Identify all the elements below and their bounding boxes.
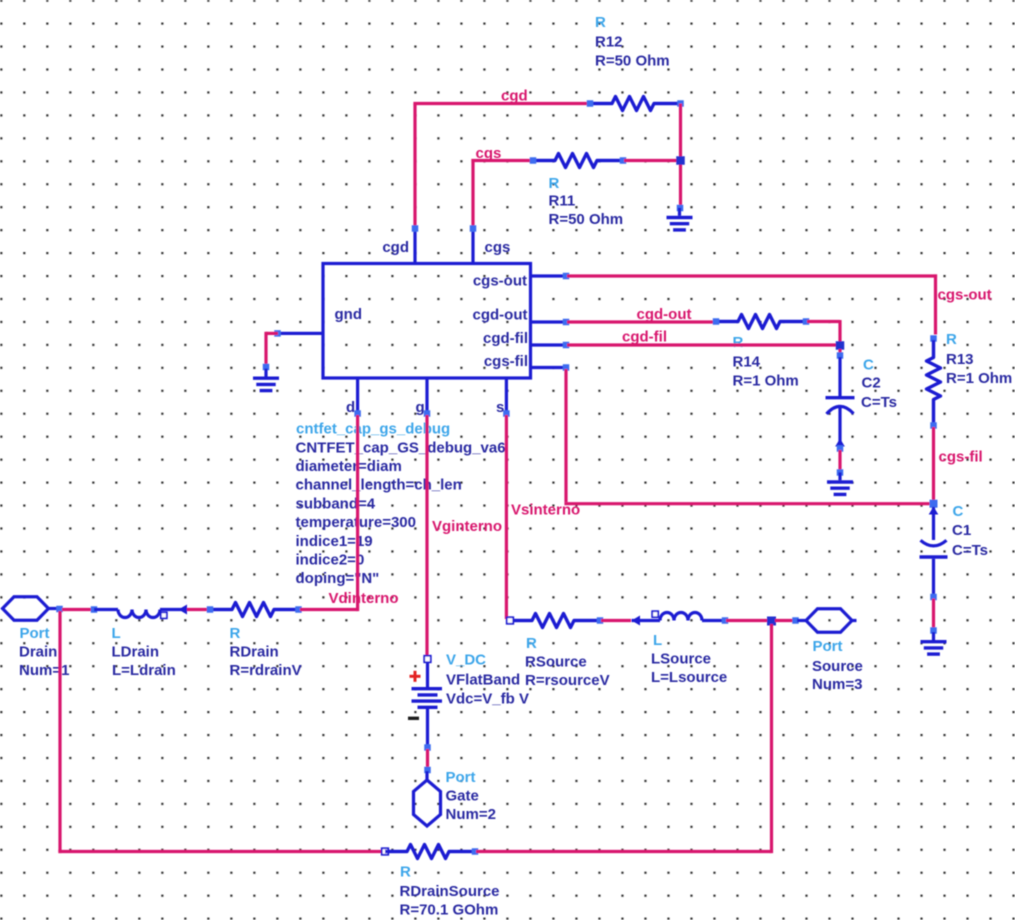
pin s (block bottom) [503,378,510,417]
label RDrainSource type [400,864,411,881]
svg-text:LDrain: LDrain [112,644,160,661]
pin cgs (block top) [470,225,477,263]
svg-text:cgd: cgd [382,239,409,256]
pin cgd (block top) [412,225,419,263]
ground G3 (C2) [827,472,853,494]
label R11 value [549,211,624,228]
svg-text:Vsinterno: Vsinterno [511,502,580,519]
pin 2 of LSource [722,617,729,624]
svg-text:Port: Port [813,638,843,655]
inductor LDrain [94,610,186,618]
label net cgd (top wire) [501,88,528,105]
arrow of C2 [835,439,845,447]
wire R11 to junction [624,159,681,162]
pin marker of LSource [652,611,658,617]
pin of port P1 / node junction [56,606,63,613]
pin 2 of R12 [677,100,684,107]
svg-text:Num=3: Num=3 [812,676,862,693]
arrow of LDrain [179,605,188,615]
arrow of C1 [929,507,939,515]
svg-text:cgs-out: cgs-out [473,273,527,290]
wire net cgd-fil [567,343,836,346]
plus sign of V_DC [410,671,421,682]
svg-text:L: L [653,632,662,649]
pin of port P2 [424,767,431,774]
svg-text:diameter=diam: diameter=diam [296,458,402,475]
capacitor C1 [920,507,948,596]
label net cgd-out [637,306,692,323]
label P2 num [446,806,496,823]
label net cgd-fil [622,329,667,346]
pin cgs-out (block right) [531,273,570,280]
pin 1 of R12 [587,100,594,107]
svg-text:RSource: RSource [525,654,587,671]
label pin cgd [382,239,409,256]
label RSource name [525,654,587,671]
label C2 name [862,375,881,392]
label C1 type [953,503,964,520]
label X1 param temperature [296,514,416,531]
svg-text:d: d [346,399,355,416]
wire net cgs: corner to R11 [471,159,531,227]
label pin cgs-fil [484,353,528,370]
svg-text:R13: R13 [946,351,974,368]
svg-text:C=Ts: C=Ts [952,542,988,559]
inductor LSource [632,613,725,621]
svg-text:cgs: cgs [485,239,511,256]
svg-text:channel_length=ch_len: channel_length=ch_len [296,477,462,494]
svg-text:g: g [416,399,425,416]
wire RSource to LSource [601,619,631,622]
label C2 value [861,394,897,411]
svg-text:Source: Source [812,658,863,675]
label RDrain value [230,662,302,679]
label pin cgd-out [473,307,528,324]
label RDrainSource value [400,902,499,919]
wire bottom rail left [58,611,384,853]
svg-text:R: R [946,331,957,348]
wire junction to port Source [775,619,794,622]
svg-text:C: C [953,503,964,520]
wire bottom rail right [476,624,772,853]
pin 2 of C1 [930,594,937,601]
svg-text:Gate: Gate [446,788,479,805]
label net Vsinterno [511,502,580,519]
label pin cgd-fil [483,330,528,347]
label pin cgs-out [473,273,527,290]
wire C1 to ground [932,599,935,630]
ground G4 (C1) [921,632,947,654]
wire gnd net [266,332,278,366]
svg-text:R=50 Ohm: R=50 Ohm [595,53,670,70]
capacitor C2 [826,357,855,446]
pin of ground G1 [677,205,684,212]
svg-text:cgs-fil: cgs-fil [484,353,528,370]
label net Vdinterno [329,590,399,607]
label net cgs-out [938,287,992,304]
label C1 name [952,522,971,539]
ground G1 (R11/R12) [667,208,693,230]
pin 2 of R11 [620,157,627,164]
pin of ground G4 [930,627,937,634]
pin 1 of RSource [507,617,514,624]
minus sign of V_DC [408,717,419,720]
svg-text:indice2=0: indice2=0 [296,552,365,569]
junction cgd-out/cgd-fil node [836,341,845,350]
label R13 name [946,351,974,368]
wire net Vdinterno [300,415,358,611]
svg-text:R11: R11 [549,193,576,210]
pin 2 of C2 [837,445,844,452]
pin g (block bottom) [424,378,431,417]
wire R12 right down to ground [679,104,682,206]
pin 1 of R14 [713,318,720,325]
svg-text:Num=1: Num=1 [19,662,69,679]
svg-text:cgd: cgd [501,88,528,105]
label V_DC value [446,691,529,708]
label X1 param doping [296,570,380,587]
svg-text:cgd-out: cgd-out [637,306,692,323]
label LSource name [651,651,711,668]
label R12 value [595,53,670,70]
label RDrain type [230,625,241,642]
svg-text:gnd: gnd [335,306,363,323]
resistor RSource [510,614,600,628]
svg-text:R: R [595,14,606,31]
svg-text:cgd-fil: cgd-fil [483,330,528,347]
svg-text:V_DC: V_DC [446,652,486,669]
svg-text:Vdc=V_fb V: Vdc=V_fb V [446,691,529,708]
wire net Vginterno [425,415,428,658]
pin of ground G3 [837,469,844,476]
resistor R11 [533,154,623,168]
label R13 type [946,331,957,348]
svg-text:VFlatBand: VFlatBand [446,672,520,689]
label V_DC type [446,652,486,669]
svg-text:cgd-fil: cgd-fil [622,329,667,346]
svg-text:cgs-out: cgs-out [938,287,992,304]
junction node C1 top [930,500,938,508]
label V_DC name [446,672,520,689]
svg-text:C: C [863,357,874,374]
label X1 param subband [296,495,376,512]
pin 2 of R13 [930,422,937,429]
svg-text:cgs: cgs [476,145,502,162]
wire R13 to node Vsinterno [932,427,935,502]
label X1 param diameter [296,458,402,475]
pin 1 of R11 [530,157,537,164]
wire net Vsinterno s-pin [506,415,509,621]
label LDrain type [112,625,121,642]
pin d (block bottom) [354,378,361,417]
wire net cgs-out [567,274,937,334]
svg-text:subband=4: subband=4 [296,495,376,512]
label X1 name [296,439,506,456]
pin 1 of C2 [837,352,844,359]
label net cgs-fil right [939,449,983,466]
svg-text:RDrainSource: RDrainSource [400,883,500,900]
port P1 Drain [3,597,58,621]
pin cgd-out (block right) [531,319,570,326]
svg-text:CNTFET_cap_GS_debug_va6: CNTFET_cap_GS_debug_va6 [296,439,506,456]
svg-text:Num=2: Num=2 [446,806,496,823]
svg-text:C=Ts: C=Ts [861,394,897,411]
svg-text:R=rsourceV: R=rsourceV [525,672,610,689]
label R13 value [946,370,1012,387]
ground G2 (block gnd) [253,369,279,391]
label X1 param indice2 [296,552,365,569]
wire net cgd-out left [567,320,715,323]
label X1 type [296,421,450,438]
label R14 type [733,334,744,351]
resistor R12 [590,97,680,111]
wire LSource to junction [726,619,772,622]
label net cgs (top wire) [476,145,502,162]
label R11 name [549,193,576,210]
pin 1 of LDrain [91,606,98,613]
label RDrainSource name [400,883,500,900]
svg-text:cgs-fil: cgs-fil [939,449,983,466]
resistor R13 [927,340,941,427]
pin 1 of SRC1 V_DC [424,656,431,663]
svg-text:Port: Port [446,769,476,786]
label pin g [416,399,425,416]
svg-text:doping="N": doping="N" [296,570,380,587]
label RSource value [525,672,610,689]
label P1 type [20,625,50,642]
pin cgs-fil (block right) [531,364,570,371]
svg-text:R: R [526,635,537,652]
svg-text:L: L [112,625,121,642]
wire net cgd-out right corner [807,320,840,342]
pin 2 of RDrain [295,606,302,613]
svg-text:RDrain: RDrain [230,644,279,661]
pin 1 of RDrain [207,606,214,613]
svg-text:Drain: Drain [19,644,57,661]
label P3 num [812,676,862,693]
svg-text:R: R [733,334,744,351]
label X1 param channel_length [296,477,462,494]
svg-text:indice1=19: indice1=19 [296,533,373,550]
wire junction to C2 [838,349,841,354]
pin 1 of RDrainSource [382,848,389,855]
label R14 name [733,354,761,371]
label pin cgs [485,239,511,256]
label pin s [496,399,504,416]
label P3 name [812,658,863,675]
svg-text:C2: C2 [862,375,881,392]
svg-text:C1: C1 [952,522,971,539]
pin 2 of RSource [597,617,604,624]
wire net cgs-fil [564,369,933,504]
svg-text:Vdinterno: Vdinterno [329,590,399,607]
svg-text:L=Lsource: L=Lsource [651,669,727,686]
svg-text:R12: R12 [595,34,623,51]
label R12 name [595,34,623,51]
label P2 name [446,788,479,805]
svg-text:R: R [549,175,560,192]
label C1 value [952,542,988,559]
svg-text:R=1 Ohm: R=1 Ohm [733,373,799,390]
svg-text:L=Ldrain: L=Ldrain [112,662,176,679]
svg-text:temperature=300: temperature=300 [296,514,416,531]
pin cgd-fil (block right) [531,342,570,349]
label pin gnd [335,306,363,323]
label R12 type [595,14,606,31]
svg-text:R14: R14 [733,354,761,371]
arrow of LSource [632,616,641,626]
label net Vginterno [432,518,502,535]
label LSource type [653,632,662,649]
label LSource value [651,669,727,686]
pin of port P3 [792,617,799,624]
svg-text:Port: Port [20,625,50,642]
pin 2 of V_DC [424,744,431,751]
pin 2 of RDrainSource [472,848,479,855]
wire net cgd top: corner to R12 [413,104,588,228]
pin gnd (block left) [274,330,323,337]
wire LDrain to RDrain [187,608,209,611]
svg-text:Vginterno: Vginterno [432,518,502,535]
svg-text:LSource: LSource [651,651,711,668]
label P2 type [446,769,476,786]
wire P1 to LDrain [62,608,93,611]
label R11 type [549,175,560,192]
label P3 type [813,638,843,655]
label C2 type [863,357,874,374]
junction source node [767,617,776,626]
source SRC1 V_DC battery [412,662,443,746]
svg-text:R=50 Ohm: R=50 Ohm [549,211,624,228]
pin 1 of R13 [930,335,937,342]
label P1 num [19,662,69,679]
svg-text:s: s [496,399,504,416]
svg-text:R: R [400,864,411,881]
pin of ground G2 [263,364,270,371]
svg-text:R=rdrainV: R=rdrainV [230,662,302,679]
svg-text:R=70.1 GOhm: R=70.1 GOhm [400,902,499,919]
pin 2 of R14 [803,318,810,325]
pin marker of LDrain [161,612,167,618]
port P3 Source [797,609,857,633]
resistor RDrainSource [385,845,475,859]
label RSource type [526,635,537,652]
label R14 value [733,373,799,390]
label RDrain name [230,644,279,661]
wire V_DC to port Gate [426,749,429,769]
resistor RDrain [210,603,300,617]
label pin d [346,399,355,416]
wire C2 to ground [838,450,841,472]
label LDrain value [112,662,176,679]
resistor R14 [716,315,806,329]
svg-text:R=1 Ohm: R=1 Ohm [946,370,1012,387]
label X1 param indice1 [296,533,373,550]
junction R11/R12 [676,156,685,165]
svg-text:R: R [230,625,241,642]
subcircuit block X1 body [323,264,531,379]
svg-text:cgd-out: cgd-out [473,307,528,324]
port P2 Gate [414,771,441,826]
label P1 name [19,644,57,661]
label LDrain name [112,644,160,661]
